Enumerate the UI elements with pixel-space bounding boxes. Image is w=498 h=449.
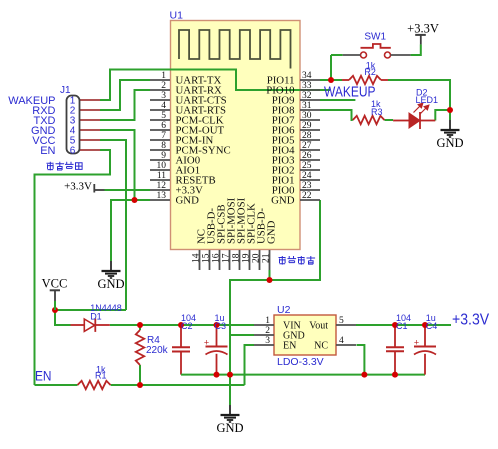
- svg-text:17: 17: [221, 253, 231, 263]
- svg-text:1: 1: [265, 316, 270, 326]
- svg-text:19: 19: [241, 253, 251, 263]
- svg-text:26: 26: [302, 151, 312, 161]
- svg-text:4: 4: [339, 336, 344, 346]
- svg-text:+3.3V: +3.3V: [64, 180, 92, 192]
- svg-text:J1: J1: [60, 85, 71, 96]
- svg-text:+: +: [204, 338, 209, 348]
- svg-text:24: 24: [302, 171, 312, 181]
- svg-text:Vout: Vout: [309, 320, 328, 331]
- svg-text:GND: GND: [97, 277, 124, 291]
- svg-text:5: 5: [339, 316, 344, 326]
- svg-text:C3: C3: [215, 321, 227, 331]
- svg-text:5: 5: [161, 111, 166, 121]
- svg-text:9: 9: [161, 151, 166, 161]
- svg-text:33: 33: [302, 81, 312, 91]
- svg-text:30: 30: [302, 111, 312, 121]
- svg-text:LDO-3.3V: LDO-3.3V: [277, 356, 324, 368]
- svg-text:C2: C2: [181, 321, 193, 331]
- svg-text:GND: GND: [216, 421, 243, 435]
- svg-text:4: 4: [161, 101, 166, 111]
- svg-text:+3.3V: +3.3V: [452, 311, 489, 329]
- svg-text:6: 6: [161, 121, 166, 131]
- svg-text:16: 16: [211, 253, 221, 263]
- svg-text:EN: EN: [283, 340, 296, 351]
- svg-text:3: 3: [161, 91, 166, 101]
- svg-text:31: 31: [302, 101, 312, 111]
- svg-text:21: 21: [261, 253, 271, 263]
- svg-text:+: +: [414, 338, 419, 348]
- svg-text:6: 6: [70, 146, 76, 157]
- svg-text:+3.3V: +3.3V: [407, 22, 439, 36]
- svg-text:1: 1: [161, 71, 166, 81]
- svg-text:18: 18: [231, 253, 241, 263]
- svg-text:220k: 220k: [146, 345, 169, 356]
- svg-text:10: 10: [157, 161, 167, 171]
- svg-text:3: 3: [265, 336, 270, 346]
- svg-text:34: 34: [302, 71, 312, 81]
- svg-text:14: 14: [191, 253, 201, 263]
- svg-text:C4: C4: [426, 321, 438, 331]
- svg-text:7: 7: [161, 131, 166, 141]
- svg-text:R1: R1: [95, 370, 107, 380]
- svg-text:23: 23: [302, 181, 312, 191]
- svg-text:13: 13: [157, 191, 167, 201]
- svg-text:VCC: VCC: [42, 277, 68, 291]
- svg-text:12: 12: [157, 181, 167, 191]
- svg-text:32: 32: [302, 91, 312, 101]
- svg-text:U2: U2: [277, 304, 291, 316]
- svg-text:11: 11: [157, 171, 166, 181]
- svg-text:GND: GND: [436, 136, 463, 150]
- svg-text:GND: GND: [176, 194, 200, 206]
- svg-text:2: 2: [161, 81, 166, 91]
- svg-text:25: 25: [302, 161, 312, 171]
- svg-text:GND: GND: [265, 220, 277, 244]
- svg-text:WAKEUP: WAKEUP: [324, 83, 376, 100]
- svg-text:28: 28: [302, 131, 312, 141]
- svg-text:LED1: LED1: [416, 95, 439, 105]
- svg-text:15: 15: [201, 253, 211, 263]
- svg-text:C1: C1: [396, 321, 408, 331]
- svg-text:27: 27: [302, 141, 312, 151]
- svg-text:NC: NC: [314, 340, 328, 351]
- svg-text:29: 29: [302, 121, 312, 131]
- svg-text:EN: EN: [35, 368, 51, 384]
- svg-text:8: 8: [161, 141, 166, 151]
- svg-text:U1: U1: [170, 10, 184, 22]
- svg-text:20: 20: [251, 253, 261, 263]
- svg-text:EN: EN: [40, 145, 55, 157]
- svg-text:D1: D1: [90, 311, 102, 321]
- svg-text:2: 2: [265, 326, 270, 336]
- svg-text:SW1: SW1: [364, 31, 386, 42]
- svg-text:22: 22: [302, 191, 312, 201]
- svg-text:R3: R3: [371, 107, 383, 117]
- svg-text:R2: R2: [364, 67, 376, 77]
- svg-text:GND: GND: [271, 194, 295, 206]
